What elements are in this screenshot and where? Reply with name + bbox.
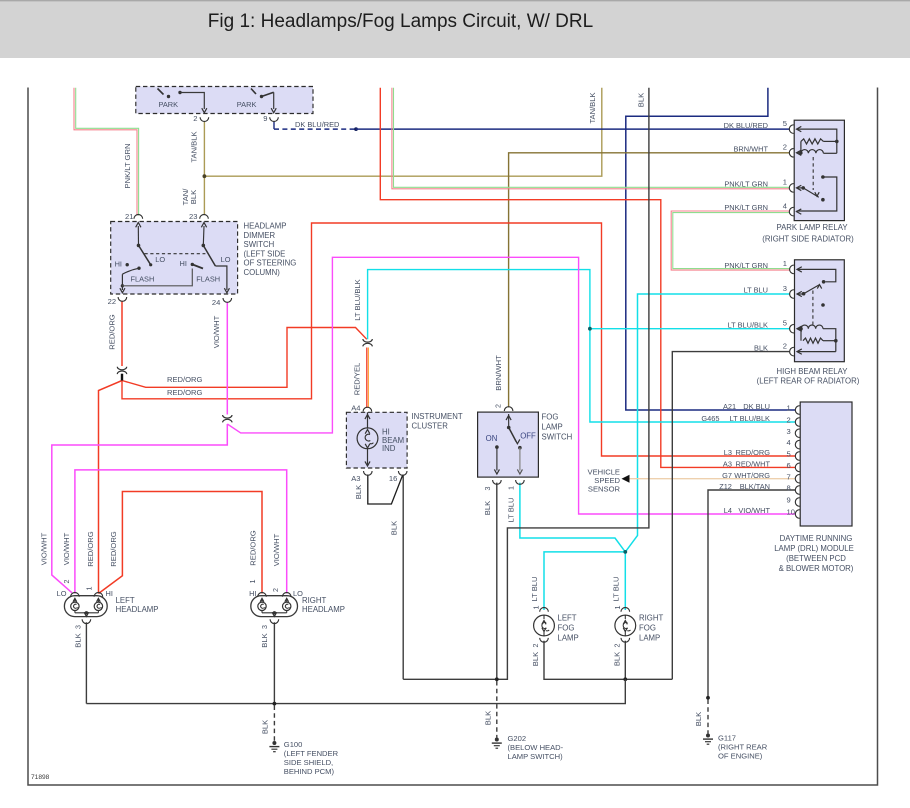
wire RED/ORG junction branch to left headlamp HI — [99, 381, 123, 594]
svg-text:LT BLU: LT BLU — [611, 576, 620, 601]
svg-text:RIGHT: RIGHT — [639, 614, 663, 623]
svg-text:1: 1 — [85, 587, 94, 591]
svg-text:HEADLAMP: HEADLAMP — [302, 605, 345, 614]
junction BLK fog bus — [623, 677, 627, 681]
wire VIO/WHT connector to left headlamp LO via lower bus — [52, 424, 228, 593]
svg-text:G117: G117 — [718, 734, 736, 743]
svg-text:OF ENGINE): OF ENGINE) — [718, 752, 763, 761]
wire LT BLU/BLK branch to high beam relay pin 5 — [590, 328, 790, 330]
svg-text:BLK/TAN: BLK/TAN — [740, 482, 770, 491]
park lamp relay dashed actuator — [812, 157, 814, 190]
svg-text:(LEFT FENDER: (LEFT FENDER — [284, 749, 339, 758]
svg-text:PNK/LT GRN: PNK/LT GRN — [724, 179, 768, 188]
svg-text:(RIGHT SIDE RADIATOR): (RIGHT SIDE RADIATOR) — [762, 234, 854, 243]
svg-text:BEHIND PCM): BEHIND PCM) — [284, 767, 335, 776]
wire TAN/BLK park switch pin 2 to junction and dimmer pin 23 — [203, 122, 205, 215]
junction tan — [203, 174, 207, 178]
svg-text:TAN/BLK: TAN/BLK — [588, 92, 597, 123]
connector in VIO/WHT wire — [223, 415, 232, 418]
wire BLK high beam relay pin 2 to fog ground bus — [672, 352, 790, 680]
svg-text:BLK: BLK — [637, 93, 646, 107]
svg-text:L3: L3 — [724, 448, 732, 457]
DRL module pin 6 — [795, 463, 799, 472]
svg-text:1: 1 — [783, 259, 787, 268]
svg-text:22: 22 — [108, 297, 116, 306]
svg-text:G202: G202 — [508, 734, 527, 743]
svg-text:1: 1 — [248, 580, 257, 584]
DRL module pin 7 — [795, 474, 799, 483]
DRL module pin 8 — [795, 486, 799, 495]
svg-text:HEADLAMP: HEADLAMP — [116, 605, 159, 614]
svg-text:CLUSTER: CLUSTER — [412, 421, 449, 430]
svg-text:5: 5 — [783, 319, 787, 328]
left headlamp — [64, 596, 107, 617]
svg-text:9: 9 — [787, 496, 791, 505]
fog lamp switch box — [478, 412, 539, 477]
wire DK BLU from top to DRL module pin 1 — [626, 88, 795, 410]
svg-text:LT BLU: LT BLU — [744, 286, 768, 295]
wire DK BLU/RED park switch pin 9 stub — [273, 122, 275, 129]
svg-text:HIGH BEAM RELAY: HIGH BEAM RELAY — [777, 367, 849, 376]
svg-text:PARK: PARK — [159, 100, 179, 109]
svg-text:ON: ON — [486, 434, 498, 443]
svg-text:1: 1 — [532, 606, 541, 610]
ground G117 — [706, 734, 710, 738]
svg-text:2: 2 — [271, 588, 280, 592]
right fog lamp — [621, 608, 630, 612]
svg-text:BLK: BLK — [531, 652, 540, 666]
svg-text:RIGHT: RIGHT — [302, 596, 326, 605]
junction BLK G202 — [495, 677, 499, 681]
svg-text:HI: HI — [106, 589, 113, 598]
fog switch pin 3 — [493, 480, 502, 484]
svg-text:LO: LO — [221, 255, 231, 264]
svg-text:FOG: FOG — [639, 624, 656, 633]
svg-text:RED/ORG: RED/ORG — [109, 531, 118, 567]
junction BLK G100 — [273, 702, 277, 706]
svg-text:BLK: BLK — [261, 720, 270, 734]
svg-text:21: 21 — [125, 212, 133, 221]
svg-text:1: 1 — [783, 178, 787, 187]
high beam relay spare contact — [821, 303, 825, 307]
svg-text:HI: HI — [115, 260, 122, 269]
wire RED/ORG junction branch lower to DRL module pin 5 — [122, 223, 795, 456]
svg-text:23: 23 — [189, 212, 197, 221]
svg-text:L4: L4 — [724, 506, 732, 515]
DRL module pin 1 — [795, 406, 799, 415]
svg-text:FLASH: FLASH — [196, 275, 220, 284]
svg-text:RED/YEL: RED/YEL — [353, 363, 362, 396]
junction BLK/TAN at G117 — [706, 696, 710, 700]
svg-text:G100: G100 — [284, 740, 303, 749]
wire LT BLU fog junction to left fog lamp — [544, 552, 625, 610]
park lamp relay switch contact to pin 4 — [821, 175, 825, 179]
park lamp relay box — [794, 120, 844, 220]
wire VIO/WHT dimmer pin 24 down to connector — [226, 302, 228, 415]
dimmer mechanical dashed link — [145, 253, 206, 255]
svg-text:LAMP: LAMP — [542, 423, 563, 432]
svg-text:RED/ORG: RED/ORG — [167, 388, 203, 397]
wire DK BLU/RED solid to park lamp relay pin 5 — [356, 128, 790, 130]
svg-text:3: 3 — [787, 427, 791, 436]
dimmer left flash contact — [137, 267, 140, 270]
svg-text:LEFT: LEFT — [558, 614, 577, 623]
svg-text:SWITCH: SWITCH — [244, 240, 275, 249]
fog switch pin 1 — [516, 480, 525, 484]
svg-text:BLK: BLK — [189, 190, 198, 204]
svg-text:G465: G465 — [701, 414, 719, 423]
wire PNK/LT GRN from top to park lamp relay pin 1 — [392, 88, 790, 189]
svg-text:DK BLU/RED: DK BLU/RED — [295, 120, 339, 129]
svg-text:3: 3 — [74, 625, 83, 629]
svg-text:PNK/LT GRN: PNK/LT GRN — [724, 261, 768, 270]
svg-text:PNK/LT GRN: PNK/LT GRN — [724, 203, 768, 212]
svg-text:PNK/LT GRN: PNK/LT GRN — [123, 144, 132, 189]
svg-text:LT BLU/BLK: LT BLU/BLK — [353, 279, 362, 321]
wire WHT/ORG vehicle speed sensor to DRL pin 7 — [628, 478, 795, 480]
svg-text:BRN/WHT: BRN/WHT — [494, 355, 503, 391]
svg-text:2: 2 — [193, 114, 197, 123]
svg-text:RED/ORG: RED/ORG — [86, 531, 95, 567]
ground G100 — [272, 741, 276, 745]
svg-text:SENSOR: SENSOR — [588, 485, 621, 494]
DRL module pin 2 — [795, 418, 799, 427]
svg-text:PARK: PARK — [237, 100, 257, 109]
svg-text:OFF: OFF — [520, 432, 536, 441]
svg-text:DK BLU/RED: DK BLU/RED — [724, 121, 768, 130]
park switch right blade — [251, 89, 256, 95]
fog switch OFF contact — [518, 446, 522, 450]
svg-text:VIO/WHT: VIO/WHT — [272, 533, 281, 566]
svg-text:LT BLU: LT BLU — [506, 497, 515, 522]
svg-text:71898: 71898 — [31, 774, 50, 781]
svg-text:VIO/WHT: VIO/WHT — [212, 315, 221, 348]
DRL module box — [800, 402, 852, 526]
svg-text:BLK: BLK — [483, 501, 492, 515]
svg-text:COLUMN): COLUMN) — [244, 268, 281, 277]
svg-text:VIO/WHT: VIO/WHT — [39, 532, 48, 565]
svg-text:DK BLU: DK BLU — [743, 402, 770, 411]
wire PNK/LT GRN from top to dimmer pin 21 — [74, 88, 137, 216]
svg-text:3: 3 — [483, 487, 492, 491]
wire BLK/TAN DRL pin 8 to ground G117 — [708, 490, 795, 698]
junction DK BLU/RED — [354, 127, 358, 131]
svg-text:2: 2 — [612, 644, 621, 648]
svg-text:BLK: BLK — [483, 711, 492, 725]
dimmer right HI contact — [191, 263, 194, 266]
svg-text:5: 5 — [783, 119, 787, 128]
left fog lamp — [540, 608, 549, 612]
svg-text:WHT/ORG: WHT/ORG — [734, 471, 770, 480]
svg-text:Z12: Z12 — [719, 482, 732, 491]
svg-text:HI: HI — [179, 259, 186, 268]
svg-text:8: 8 — [787, 484, 791, 493]
svg-text:TAN/BLK: TAN/BLK — [190, 131, 199, 162]
svg-text:3: 3 — [783, 284, 787, 293]
wire RED/WHT from top to DRL module pin 6 — [380, 88, 795, 468]
park switch left blade — [158, 89, 164, 95]
svg-text:16: 16 — [389, 474, 397, 483]
svg-text:& BLOWER MOTOR): & BLOWER MOTOR) — [779, 564, 854, 573]
DRL module pin 9 — [795, 498, 799, 507]
wire BLK fog bus to bottom ground bus — [86, 679, 625, 703]
DRL module pin 10 — [795, 510, 799, 519]
svg-text:(BELOW HEAD-: (BELOW HEAD- — [508, 743, 564, 752]
wire BLK dashed to ground G100 — [273, 706, 275, 742]
svg-text:7: 7 — [787, 472, 791, 481]
svg-text:BLK: BLK — [694, 712, 703, 726]
svg-text:IND: IND — [382, 444, 396, 453]
svg-text:RED/WHT: RED/WHT — [736, 460, 771, 469]
wire RED/ORG bus between headlamp HI pins — [99, 492, 263, 594]
svg-text:FLASH: FLASH — [131, 275, 155, 284]
svg-text:1: 1 — [506, 486, 515, 490]
svg-text:10: 10 — [787, 508, 795, 517]
fog switch internal switch — [508, 414, 510, 428]
wire BLK instrument cluster pin A3 loop to pin 16 — [368, 475, 403, 505]
svg-text:2: 2 — [531, 644, 540, 648]
wire DK BLU/RED dashed segment — [274, 128, 356, 130]
dimmer right switch — [202, 226, 205, 245]
svg-text:2: 2 — [787, 416, 791, 425]
connector in RED/ORG wire — [117, 367, 126, 370]
wire VIO/WHT bus between headlamp LO pins — [75, 470, 287, 594]
svg-text:FOG: FOG — [542, 412, 559, 421]
svg-text:A4: A4 — [351, 404, 360, 413]
wire BLK fog switch pin 3 to ground bus — [496, 483, 498, 680]
svg-text:LO: LO — [57, 589, 67, 598]
svg-text:A21: A21 — [723, 402, 736, 411]
svg-text:SWITCH: SWITCH — [542, 433, 573, 442]
svg-text:BLK: BLK — [754, 343, 768, 352]
svg-text:4: 4 — [783, 201, 787, 210]
wire BLK dashed to ground G117 — [707, 700, 709, 734]
wire BLK from top edge to cluster ground bus — [403, 88, 649, 680]
svg-text:LAMP SWITCH): LAMP SWITCH) — [508, 752, 564, 761]
high beam relay dashed actuator — [812, 291, 814, 325]
svg-text:1: 1 — [613, 606, 622, 610]
svg-text:BLK: BLK — [74, 633, 83, 647]
dimmer crossover link — [122, 269, 192, 286]
svg-text:INSTRUMENT: INSTRUMENT — [412, 412, 463, 421]
svg-text:HEADLAMP: HEADLAMP — [244, 222, 287, 231]
wire RED/ORG dimmer pin 22 down to connector — [121, 301, 123, 366]
park switch right wire to pin 9 — [273, 92, 275, 109]
high beam relay box — [795, 260, 845, 362]
svg-text:RED/ORG: RED/ORG — [249, 530, 258, 566]
svg-text:2: 2 — [494, 404, 503, 408]
svg-text:G7: G7 — [722, 471, 732, 480]
park lamp relay coil — [801, 150, 824, 154]
wire LT BLU/BLK connector up and over to high beam relay pin 5 and DRL pin 2 — [368, 270, 796, 422]
svg-text:SIDE SHIELD,: SIDE SHIELD, — [284, 758, 333, 767]
svg-text:VIO/WHT: VIO/WHT — [738, 506, 770, 515]
instrument cluster box — [346, 412, 407, 468]
dimmer left leg to pin 22 — [121, 274, 123, 290]
svg-text:4: 4 — [787, 438, 791, 447]
svg-text:VIO/WHT: VIO/WHT — [62, 532, 71, 565]
svg-text:BLK: BLK — [390, 521, 399, 535]
svg-text:(LEFT SIDE: (LEFT SIDE — [244, 249, 286, 258]
park switch box — [136, 87, 313, 114]
svg-text:LO: LO — [155, 255, 165, 264]
wire VIO/WHT connector branch to DRL module pin 10 — [227, 257, 795, 514]
svg-text:(BETWEEN PCD: (BETWEEN PCD — [786, 554, 846, 563]
wire RED/YEL connector to instrument cluster pin A4 — [366, 348, 368, 409]
hi beam indicator bulb — [367, 412, 369, 428]
junction LT BLU fog — [623, 550, 627, 554]
connector in RED/YEL wire — [363, 339, 372, 342]
park switch left contact and wire to pin 2 — [178, 91, 181, 94]
svg-text:RED/ORG: RED/ORG — [736, 448, 771, 457]
svg-text:LT BLU/BLK: LT BLU/BLK — [730, 414, 770, 423]
DRL module pin 4 — [795, 440, 799, 449]
svg-text:2: 2 — [783, 143, 787, 152]
fog switch ON contact — [495, 445, 499, 449]
svg-text:LAMP: LAMP — [639, 634, 660, 643]
svg-text:9: 9 — [263, 114, 267, 123]
DRL module pin 3 — [795, 429, 799, 438]
svg-text:LEFT: LEFT — [116, 596, 135, 605]
svg-text:(RIGHT REAR: (RIGHT REAR — [718, 743, 768, 752]
dimmer left HI contact — [126, 263, 129, 266]
wire BLK right headlamp to bottom ground bus — [273, 622, 275, 703]
dimmer left switch — [137, 226, 139, 245]
svg-text:DAYTIME RUNNING: DAYTIME RUNNING — [780, 534, 853, 543]
wire RED/ORG junction branch upper to hi-beam indicator connector — [122, 328, 367, 388]
svg-text:BLK: BLK — [260, 633, 269, 647]
wire BLK right fog lamp drop — [624, 641, 626, 680]
svg-text:HI: HI — [249, 589, 256, 598]
svg-text:BLK: BLK — [612, 652, 621, 666]
svg-text:OF STEERING: OF STEERING — [244, 259, 297, 268]
right headlamp — [251, 596, 298, 617]
wire LT BLU high beam relay pin 3 to fog junction — [625, 294, 790, 552]
svg-text:FOG: FOG — [558, 624, 575, 633]
svg-text:2: 2 — [62, 580, 71, 584]
svg-text:A3: A3 — [351, 474, 360, 483]
svg-text:BLK: BLK — [354, 485, 363, 499]
svg-text:LAMP (DRL) MODULE: LAMP (DRL) MODULE — [774, 544, 854, 553]
wire LT BLU fog junction to right fog lamp — [624, 552, 626, 610]
svg-text:BRN/WHT: BRN/WHT — [734, 144, 769, 153]
svg-text:(LEFT REAR OF RADIATOR): (LEFT REAR OF RADIATOR) — [757, 376, 860, 385]
wire LT BLU fog switch pin 1 to fog junction — [520, 483, 625, 552]
title header band — [0, 0, 910, 58]
svg-text:3: 3 — [260, 625, 269, 629]
svg-text:1: 1 — [787, 404, 791, 413]
wire TAN/BLK junction to top right — [204, 88, 601, 176]
svg-text:RED/ORG: RED/ORG — [108, 314, 117, 350]
headlamp dimmer switch box — [111, 222, 238, 295]
wire BLK fog lamp ground bus — [544, 641, 672, 680]
DRL module pin 5 — [795, 452, 799, 461]
svg-text:2: 2 — [783, 341, 787, 350]
wire BLK dashed to ground G202 — [496, 681, 498, 738]
svg-text:6: 6 — [787, 461, 791, 470]
svg-text:LAMP: LAMP — [558, 634, 579, 643]
svg-text:A3: A3 — [723, 460, 732, 469]
svg-text:24: 24 — [212, 298, 220, 307]
svg-text:Fig 1: Headlamps/Fog Lamps Cir: Fig 1: Headlamps/Fog Lamps Circuit, W/ D… — [208, 11, 593, 32]
svg-text:PARK LAMP RELAY: PARK LAMP RELAY — [776, 223, 848, 232]
wire BRN/WHT park lamp relay pin 2 to fog lamp switch pin 2 — [509, 153, 790, 408]
svg-text:RED/ORG: RED/ORG — [167, 375, 203, 384]
ground G202 — [495, 738, 499, 742]
wire BLK left headlamp to bottom ground bus — [85, 622, 87, 703]
dimmer right leg to pin 24 — [215, 266, 227, 290]
park lamp relay resistor network — [797, 129, 837, 153]
svg-text:5: 5 — [787, 450, 791, 459]
wire BLK instrument cluster pin 16 down to ground bus — [402, 475, 404, 680]
junction LT BLU/BLK — [588, 327, 592, 331]
svg-text:LT BLU/BLK: LT BLU/BLK — [728, 320, 768, 329]
svg-text:LT BLU: LT BLU — [530, 576, 539, 601]
wire PNK/LT GRN park relay pin 4 to high beam relay pin 1 — [671, 211, 790, 270]
svg-text:DIMMER: DIMMER — [244, 231, 276, 240]
